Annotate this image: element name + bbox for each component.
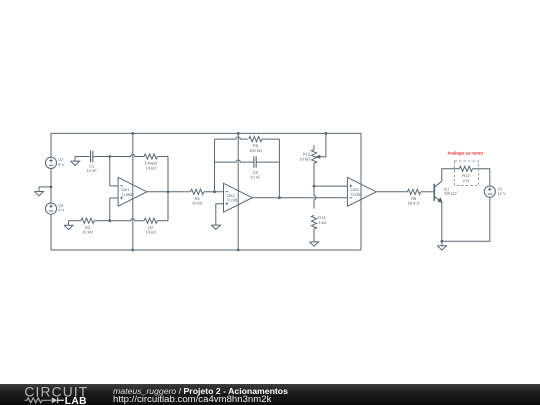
wire OA2 output to OA3 inverting input (hop over divider): [252, 197, 347, 199]
wire OA1 non-inverting input: [110, 198, 118, 221]
node OA2 inverting input junction: [213, 190, 216, 193]
resistor R2 10 k feedback: [144, 218, 157, 223]
node OA1 output/feedback junction: [167, 190, 170, 193]
ground C1 input: [71, 157, 80, 166]
annotation dashed box (motor analog): [454, 161, 478, 186]
wire C1 left lead: [75, 156, 89, 158]
svg-text:Análogo ao motor: Análogo ao motor: [447, 151, 483, 156]
svg-text:LAB: LAB: [65, 396, 87, 405]
node OA2 output/feedback junction: [278, 196, 281, 199]
wire OA3 output: [376, 191, 407, 193]
wire left rail lower (V3 to bottom): [50, 214, 52, 250]
wire R14 bottom lead: [313, 229, 315, 237]
wire left rail upper (to V2): [50, 133, 52, 157]
svg-text:10 kΩ: 10 kΩ: [146, 230, 157, 235]
node OA1 +input junction: [108, 219, 111, 222]
resistor R12 2 ohm (motor analog): [459, 166, 472, 171]
capacitor C1 10 nF: [91, 151, 93, 162]
wire OA1 power rail vertical (top rail to bottom rail): [132, 133, 134, 250]
wire divider node to OA3 non-inverting input: [314, 185, 347, 187]
wire R6 row left (hop over OA2 power rail): [215, 137, 248, 139]
voltage source V1 12 V: [484, 186, 495, 197]
resistor R3 10 k: [81, 218, 94, 223]
wire V1 bottom to emitter node: [442, 197, 490, 241]
svg-text:12 V: 12 V: [497, 191, 506, 196]
wire top supply rail: [51, 132, 361, 134]
svg-text:TL081: TL081: [121, 192, 133, 197]
voltage source V2 9 V: [45, 157, 56, 168]
node divider junction: [313, 185, 316, 188]
svg-text:10 kΩ: 10 kΩ: [82, 230, 93, 235]
ground R3: [64, 221, 73, 230]
wire R12 to V1: [473, 169, 490, 186]
wire R13 bottom lead to divider node: [313, 163, 315, 186]
svg-text:2 Ω: 2 Ω: [463, 178, 469, 183]
svg-text:9 V: 9 V: [58, 208, 64, 213]
node OA2 V+ on top rail: [237, 132, 240, 135]
wire R4 to OA2 inverting input: [204, 191, 224, 193]
wire OA3 power rail vertical: [360, 133, 362, 250]
op-amp OA3 TL081: [347, 177, 376, 206]
wire between V2 and V3: [50, 169, 52, 204]
wire OA2 power rail vertical: [237, 133, 239, 250]
wire feedback left vertical: [214, 139, 216, 192]
wire node to R2 (hop over OA1 power rail): [110, 219, 144, 221]
wire R3 to +input node: [94, 220, 110, 222]
potentiometer R13 wiper arrow: [316, 155, 320, 158]
ground emitter: [437, 241, 446, 250]
transistor Q1 TIP122: [433, 184, 435, 201]
wire Trimpot right lead: [157, 156, 168, 158]
wire OA2 non-inverting input to ground: [216, 204, 224, 221]
ground mid-left: [35, 187, 44, 196]
node supply midpoint junction: [50, 186, 53, 189]
svg-text:10 nF: 10 nF: [87, 168, 98, 173]
resistor R4 10 k: [191, 189, 204, 194]
svg-text:1 kΩ: 1 kΩ: [318, 220, 326, 225]
op-amp OA2 TL081: [224, 183, 253, 212]
wire OA1 inverting input: [110, 157, 118, 186]
wire R13 wiper to top rail: [320, 133, 326, 156]
svg-text:10 kΩ: 10 kΩ: [299, 156, 310, 161]
capacitor C2 10 nF feedback: [254, 156, 256, 168]
op-amp OA1 TL081: [118, 177, 147, 206]
svg-text:TL081: TL081: [351, 192, 363, 197]
node R13 wiper on top rail: [325, 132, 328, 135]
wire Q1 collector to R12: [442, 169, 460, 181]
wire C1 right lead to node: [93, 156, 110, 158]
svg-text:10 kΩ: 10 kΩ: [192, 201, 203, 206]
wire R8 to Q1 base: [421, 191, 435, 193]
node OA2 V- on bottom rail: [237, 249, 240, 252]
wire C2 right lead: [256, 161, 279, 163]
svg-text:100 kΩ: 100 kΩ: [249, 148, 262, 153]
resistor R6 100 k feedback: [249, 137, 262, 142]
wire C2 row left (hop over OA2 power rail): [215, 160, 254, 162]
svg-text:TL081: TL081: [227, 198, 239, 203]
wire node to Trimpot (hop over OA1 power rail): [110, 154, 144, 156]
resistor Trimpot 10 k feedback: [144, 154, 157, 159]
svg-text:10 nF: 10 nF: [250, 174, 261, 179]
CircuitLab logo: [0, 384, 100, 405]
wire R6 right lead: [262, 138, 279, 140]
wire OA1 output: [147, 191, 191, 193]
wire bottom supply rail: [51, 249, 361, 251]
svg-text:10 kΩ: 10 kΩ: [146, 165, 157, 170]
svg-text:9 V: 9 V: [58, 162, 64, 167]
node emitter/V1- junction: [441, 240, 444, 243]
wire to mid ground: [39, 186, 51, 188]
voltage source V3 9 V: [45, 203, 56, 214]
ground R14: [310, 237, 319, 246]
wire divider node down to R14 (hop over OA2 output wire): [314, 186, 316, 209]
node OA1 inverting input junction: [108, 155, 111, 158]
wire R2 right lead: [157, 220, 168, 222]
resistor R8 56.4 ohm: [407, 189, 420, 194]
node OA1 V- on bottom rail: [131, 249, 134, 252]
resistor R14 1 k: [311, 215, 316, 229]
wire R13 top lead (dangling): [313, 145, 315, 150]
svg-text:TIP122: TIP122: [444, 191, 458, 196]
wire feedback right vertical: [278, 139, 280, 198]
wire Q1 emitter down: [441, 202, 443, 241]
svg-text:56.4 Ω: 56.4 Ω: [408, 201, 420, 206]
wire feedback right vertical (to OA1 output): [167, 157, 169, 221]
node OA1 V+ on top rail: [131, 132, 134, 135]
wire R3 left lead: [69, 220, 82, 222]
ground OA2 +input: [211, 221, 220, 230]
